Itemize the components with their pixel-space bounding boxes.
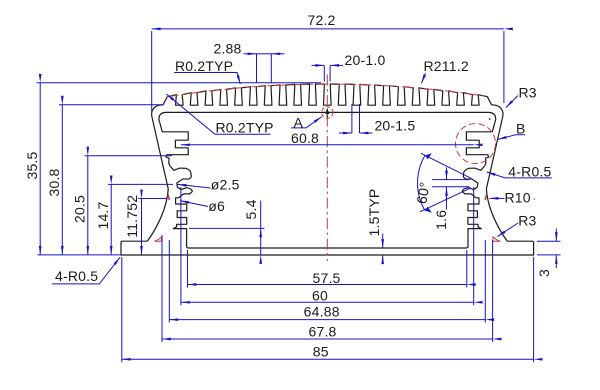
red R10 tick left wall <box>168 195 169 201</box>
dim 5.4 extension line <box>189 227 265 229</box>
svg-text:4-R0.5: 4-R0.5 <box>55 268 98 284</box>
svg-text:R10: R10 <box>505 189 531 205</box>
dim 72.2 line <box>152 28 504 30</box>
svg-text:R0.2TYP: R0.2TYP <box>175 58 233 74</box>
svg-text:72.2: 72.2 <box>307 12 335 28</box>
dim 57.5 extension lines <box>187 250 189 288</box>
dim 64.88 extension lines <box>168 240 170 323</box>
dim 11.752 extension line <box>138 198 167 200</box>
dim 2.88 extension lines <box>256 54 258 83</box>
leader R3 top right <box>506 96 518 108</box>
dim 35.5 extension line <box>37 82 322 84</box>
leader dia 2.5 <box>178 184 211 188</box>
dim 64.88 line <box>169 319 485 321</box>
blue dimension geometry <box>37 29 561 362</box>
60 degree arc arrowheads <box>425 153 432 212</box>
svg-text:11.752: 11.752 <box>124 195 140 238</box>
dim 60 line <box>181 301 474 303</box>
svg-text:ø2.5: ø2.5 <box>211 176 240 192</box>
dim 30.8 extension line <box>59 104 164 106</box>
dim 72.2 extension lines <box>151 31 153 112</box>
svg-text:64.88: 64.88 <box>304 304 340 320</box>
red fillet gauge right wall/foot (R3) <box>493 237 500 241</box>
dim 67.8 extension lines <box>161 235 163 342</box>
dim 57.5 line <box>188 284 467 286</box>
svg-text:85: 85 <box>313 344 329 360</box>
leader B with underline <box>498 135 525 140</box>
dim 60 degrees legs <box>421 153 471 178</box>
dim 67.8 line <box>162 338 493 340</box>
svg-text:2.88: 2.88 <box>213 40 241 56</box>
dim 35.5 line <box>39 83 41 255</box>
svg-text:60.8: 60.8 <box>291 130 319 146</box>
inner contour: ceiling, wall with T-slot, screw boss, serrations, ledge, floor <box>159 112 327 248</box>
dim 85 extension lines <box>121 257 123 362</box>
dim 20.5 extension line <box>85 155 173 157</box>
svg-text:30.8: 30.8 <box>46 168 62 196</box>
dimension texts <box>24 12 552 360</box>
dim 60 degrees arc <box>418 156 425 211</box>
leader A <box>291 117 322 128</box>
outer contour with feet, wall and fins <box>121 84 327 255</box>
leader R10 <box>489 197 504 199</box>
leader R211.2 <box>422 73 426 83</box>
stray arc end dot <box>489 118 491 120</box>
dim 1.5TYP arrows at floor <box>382 234 384 249</box>
baseline extension to left <box>38 254 122 256</box>
dim 20-1.5 line with outside arrows <box>339 132 352 134</box>
leader R3 lower right <box>497 223 518 237</box>
svg-text:R3: R3 <box>518 213 536 229</box>
svg-text:60: 60 <box>312 287 328 303</box>
dim 3 extension lines <box>537 240 561 242</box>
dim 14.7 extension line <box>108 183 173 185</box>
red centerline (vertical axis) <box>326 75 328 262</box>
dim 5.4 line <box>260 201 262 229</box>
dim 60.8 line between screw channels <box>181 144 474 146</box>
dim 14.7 line <box>110 184 112 255</box>
dim 3 arrows <box>555 229 557 242</box>
dim 2.88 line with outside arrows <box>244 53 257 55</box>
svg-text:1.5TYP: 1.5TYP <box>366 189 382 237</box>
black section arrow at point A <box>326 112 328 118</box>
svg-text:A: A <box>294 115 304 131</box>
leader R0.2TYP top <box>174 73 240 85</box>
svg-text:3: 3 <box>536 269 552 277</box>
dim 11.752 line <box>141 199 143 255</box>
dim 20-1.5 extension lines <box>351 104 353 133</box>
svg-text:1.6: 1.6 <box>433 210 449 230</box>
dim 20.5 line <box>87 156 89 255</box>
dim 20-1.0 line with outside arrows <box>312 64 325 66</box>
svg-text:20-1.5: 20-1.5 <box>374 117 415 133</box>
red R211.2 arc along fin tips <box>167 84 489 97</box>
leader 4-R0.5 right with underline <box>487 172 552 178</box>
leader R0.2TYP lower <box>166 94 270 134</box>
leader 4-R0.5 bottom left with underline <box>52 257 120 284</box>
dim 85 line <box>122 358 534 360</box>
svg-text:4-R0.5: 4-R0.5 <box>508 164 551 180</box>
extrusion profile outline (left half, mirrored for right) <box>121 84 534 255</box>
dim 20-1.0 extension lines <box>323 66 325 82</box>
red detail circle B <box>456 124 496 164</box>
red detail circle A <box>322 107 333 118</box>
svg-text:ø6: ø6 <box>208 198 225 214</box>
svg-text:35.5: 35.5 <box>24 151 40 179</box>
svg-text:B: B <box>516 120 526 136</box>
dim 1.6 extension lines <box>432 179 470 181</box>
stray dot right of R10 label <box>534 198 536 200</box>
svg-text:57.5: 57.5 <box>312 270 340 286</box>
red fillet gauge left wall/foot <box>154 237 161 241</box>
svg-text:67.8: 67.8 <box>308 324 336 340</box>
svg-text:20-1.0: 20-1.0 <box>345 52 386 68</box>
svg-text:14.7: 14.7 <box>95 201 111 229</box>
svg-text:20.5: 20.5 <box>72 195 88 223</box>
dim 30.8 line <box>61 105 63 255</box>
svg-text:R211.2: R211.2 <box>424 58 469 74</box>
red R10 tick right wall <box>485 195 486 201</box>
dim 1.6 arrows <box>446 168 448 180</box>
svg-text:R0.2TYP: R0.2TYP <box>216 120 274 136</box>
svg-text:R3: R3 <box>519 85 537 101</box>
dim 60 extension lines from boss centers <box>180 187 182 305</box>
leader dia 6 <box>180 201 208 207</box>
svg-text:5.4: 5.4 <box>243 199 259 219</box>
